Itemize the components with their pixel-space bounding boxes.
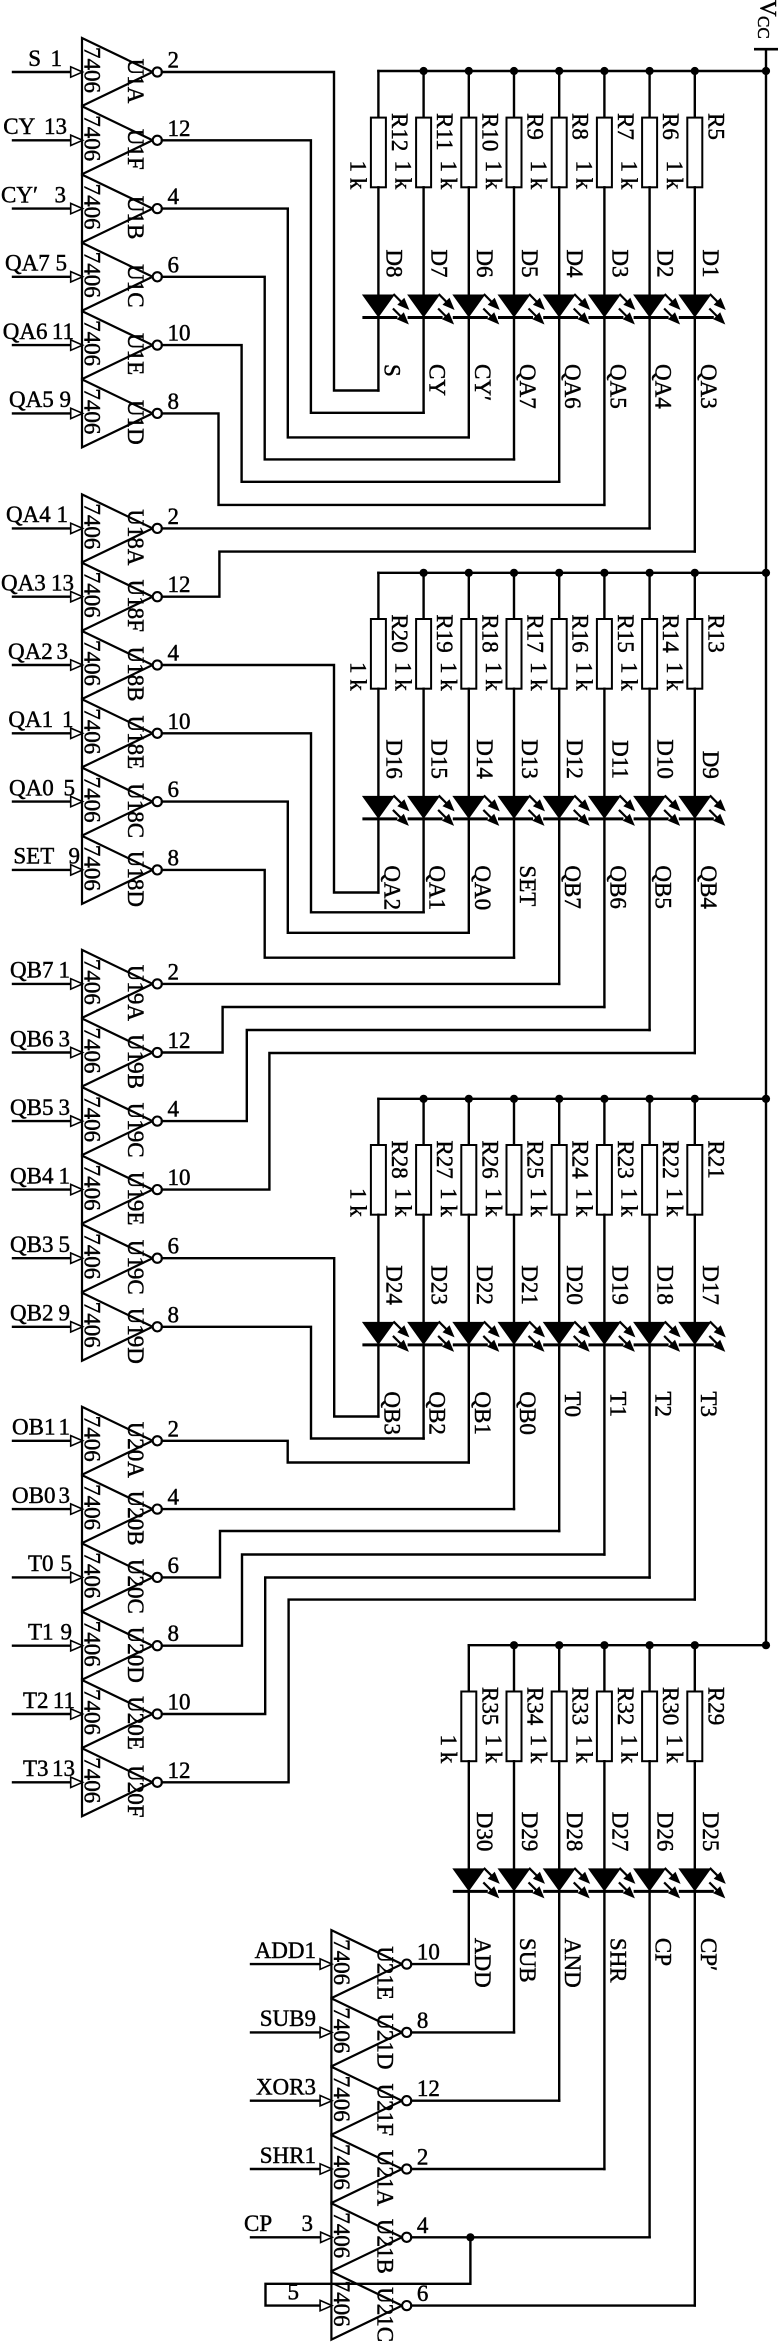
svg-text:U20D: U20D [123, 1627, 148, 1683]
LED D23 [407, 1265, 455, 1352]
LED D26 [633, 1812, 681, 1899]
svg-text:1: 1 [59, 1163, 71, 1188]
input QB2 pin 9 to U19D [10, 1301, 83, 1332]
inverter U19E (7406) [80, 1156, 162, 1226]
svg-text:11: 11 [52, 319, 74, 344]
LED D24 [362, 1265, 410, 1352]
input CP pin 3 to U21B [244, 2211, 332, 2242]
resistor R30 1 k [617, 1645, 684, 1868]
inverter U20E (7406) [80, 1680, 162, 1750]
resistor R10 1 k [436, 71, 503, 295]
inverter U20F (7406) [80, 1748, 162, 1817]
junction dots on bank 3 bus [420, 1095, 771, 1103]
svg-text:QA1: QA1 [425, 865, 450, 910]
svg-text:D24: D24 [381, 1265, 406, 1305]
svg-text:OB0: OB0 [12, 1483, 55, 1508]
svg-text:2: 2 [168, 959, 180, 984]
wire U1F output to LED column (net CY) [162, 140, 424, 413]
inverter U19D (7406) [80, 1293, 162, 1364]
svg-text:8: 8 [168, 1621, 180, 1646]
wire U19E output to LED column (net QB4) [162, 1053, 695, 1190]
svg-text:1: 1 [51, 46, 63, 71]
node net label S [379, 364, 404, 377]
svg-text:QB7: QB7 [10, 958, 53, 983]
svg-text:QB4: QB4 [696, 865, 721, 909]
LED D19 [588, 1265, 636, 1352]
wire net CP column [648, 1891, 650, 2237]
resistor R17 1 k [481, 573, 548, 796]
svg-text:4: 4 [168, 184, 180, 209]
svg-text:D14: D14 [472, 739, 497, 779]
svg-text:9: 9 [59, 1301, 71, 1326]
pin 12 of U20F [168, 1758, 191, 1783]
wire U21F output to LED column (net AND) [411, 2099, 559, 2101]
inverter U21F (7406) [329, 2067, 411, 2136]
node net label QB7 [560, 865, 585, 908]
input T0 pin 5 to U20C [13, 1551, 83, 1582]
svg-text:U19C: U19C [123, 1103, 148, 1158]
svg-text:QA6: QA6 [560, 364, 585, 409]
svg-text:3: 3 [59, 1483, 71, 1508]
svg-text:U21A: U21A [372, 2150, 397, 2207]
svg-text:D3: D3 [607, 249, 632, 277]
svg-text:D10: D10 [653, 739, 678, 779]
svg-text:3: 3 [55, 182, 67, 207]
svg-text:QB5: QB5 [651, 865, 676, 908]
wire U18C output to LED column (net QA0) [162, 802, 469, 933]
LED D2 [633, 249, 681, 324]
svg-text:1 k: 1 k [571, 161, 596, 190]
LED D22 [452, 1265, 500, 1352]
svg-text:U21E: U21E [372, 1946, 397, 2000]
wire net QA5 column [603, 318, 605, 505]
resistor R27 1 k [391, 1099, 458, 1322]
svg-text:U1A: U1A [123, 59, 148, 104]
svg-text:12: 12 [168, 1758, 191, 1783]
wire U1C output to LED column (net QA7) [162, 277, 514, 460]
svg-text:U1B: U1B [123, 196, 148, 239]
svg-text:QA1: QA1 [8, 707, 53, 732]
svg-text:QB0: QB0 [515, 1391, 540, 1434]
svg-text:D12: D12 [562, 739, 587, 779]
wire net SET column [513, 819, 515, 958]
svg-text:T3: T3 [23, 1756, 49, 1781]
svg-text:1 k: 1 k [481, 1734, 506, 1763]
svg-text:R29: R29 [703, 1687, 728, 1725]
svg-text:U19D: U19D [123, 1308, 148, 1364]
node net label QA2 [379, 865, 404, 910]
wire U18B output to LED column (net QA2) [162, 665, 379, 893]
LED D14 [452, 739, 500, 826]
wire net QB2 column [422, 1345, 424, 1439]
svg-text:8: 8 [417, 2008, 429, 2033]
pin 4 of U1B [168, 184, 180, 209]
node net label QB4 [696, 865, 721, 909]
svg-text:D28: D28 [562, 1812, 587, 1852]
svg-text:12: 12 [168, 1028, 191, 1053]
LED D18 [633, 1265, 681, 1352]
svg-text:3: 3 [59, 1026, 71, 1051]
LED D4 [543, 249, 591, 324]
svg-text:D1: D1 [698, 249, 723, 277]
svg-text:D27: D27 [607, 1812, 632, 1852]
LED D3 [588, 249, 636, 324]
wire U21A output to LED column (net SHR) [411, 2168, 604, 2170]
node net label QA4 [651, 364, 676, 409]
junction dots on bank 4 bus [510, 1641, 770, 1649]
svg-text:7406: 7406 [80, 1757, 105, 1803]
pin 4 of U20B [168, 1485, 180, 1510]
LED D17 [678, 1265, 726, 1352]
svg-text:7406: 7406 [329, 2281, 354, 2327]
inverter U1C (7406) [80, 243, 162, 311]
svg-text:1: 1 [59, 1415, 71, 1440]
inverter U20A (7406) [80, 1407, 162, 1478]
svg-text:7406: 7406 [80, 1233, 105, 1279]
pin 6 of U20C [168, 1553, 180, 1578]
svg-text:7406: 7406 [80, 1165, 105, 1211]
svg-text:D2: D2 [653, 249, 678, 277]
LED D21 [498, 1265, 546, 1352]
wire net T1 column [603, 1345, 605, 1555]
svg-text:7406: 7406 [80, 845, 105, 891]
svg-text:R21: R21 [703, 1140, 728, 1178]
svg-text:AND: AND [560, 1938, 585, 1988]
node net label SET [515, 865, 540, 906]
svg-text:R7: R7 [613, 113, 638, 140]
svg-text:R34: R34 [523, 1687, 548, 1726]
inverter U19A (7406) [80, 950, 162, 1021]
wire U20E output to LED column (net T2) [162, 1578, 650, 1715]
svg-text:R23: R23 [613, 1140, 638, 1178]
wire U19B output to LED column (net QB6) [162, 1007, 605, 1053]
svg-text:CP′: CP′ [696, 1938, 721, 1971]
inverter U21D (7406) [329, 1998, 411, 2069]
svg-text:10: 10 [168, 1690, 191, 1715]
svg-text:1 k: 1 k [345, 161, 370, 190]
svg-text:R6: R6 [658, 113, 683, 140]
svg-text:R9: R9 [523, 113, 548, 140]
resistor R29 1 k [662, 1645, 729, 1868]
svg-text:QA4: QA4 [651, 364, 676, 409]
wire net QA3 column [694, 318, 696, 552]
inverter U18A (7406) [80, 494, 162, 565]
wire U20C output to LED column (net T0) [162, 1531, 559, 1577]
svg-text:QA6: QA6 [3, 319, 48, 344]
svg-text:7406: 7406 [80, 1621, 105, 1667]
svg-text:3: 3 [59, 1095, 71, 1120]
svg-text:D23: D23 [427, 1265, 452, 1305]
svg-text:CC: CC [754, 16, 773, 39]
svg-text:8: 8 [168, 389, 180, 414]
wire net QA2 column [377, 819, 379, 893]
node net label QA6 [560, 364, 585, 409]
svg-text:13: 13 [44, 114, 67, 139]
input QB4 pin 1 to U19E [10, 1163, 83, 1194]
svg-text:1 k: 1 k [345, 1188, 370, 1217]
svg-text:R18: R18 [477, 614, 502, 652]
svg-text:T0: T0 [28, 1551, 54, 1576]
svg-text:ADD1: ADD1 [255, 1938, 316, 1963]
svg-text:CP: CP [244, 2211, 272, 2236]
svg-text:7406: 7406 [80, 47, 105, 93]
node net label QB5 [651, 865, 676, 908]
svg-text:U21F: U21F [372, 2083, 397, 2135]
svg-text:7406: 7406 [329, 2076, 354, 2122]
LED D8 [362, 249, 410, 324]
svg-text:U19C: U19C [123, 1240, 148, 1295]
svg-text:7406: 7406 [80, 1028, 105, 1074]
svg-text:QA5: QA5 [605, 364, 630, 409]
wire U18D output to LED column (net SET) [162, 870, 514, 958]
wire net S column [377, 318, 379, 391]
svg-text:6: 6 [168, 1234, 180, 1259]
svg-text:R16: R16 [568, 614, 593, 652]
svg-text:U18C: U18C [123, 783, 148, 838]
svg-text:1 k: 1 k [617, 662, 642, 691]
svg-text:CY′: CY′ [1, 182, 38, 207]
wire net QA7 column [513, 318, 515, 460]
svg-text:D18: D18 [653, 1265, 678, 1305]
pin 8 of U1D [168, 389, 180, 414]
svg-text:9: 9 [60, 387, 72, 412]
wire net CP′ column [694, 1891, 696, 2305]
input QA2 pin 3 to U18B [8, 639, 83, 670]
wire net QA4 column [648, 318, 650, 529]
svg-text:7406: 7406 [329, 2007, 354, 2053]
resistor R32 1 k [571, 1645, 638, 1868]
inverter U21E (7406) [329, 1930, 411, 2000]
node net label QA3 [696, 364, 721, 409]
input T2 pin 11 to U20E [13, 1688, 83, 1719]
svg-text:7406: 7406 [80, 572, 105, 618]
resistor R8 1 k [526, 71, 593, 295]
inverter U20C (7406) [80, 1543, 162, 1613]
wire U1B output to LED column (net CY') [162, 209, 469, 438]
wire Vcc distribution bus (bank 4) [469, 1644, 766, 1646]
svg-text:7406: 7406 [80, 1484, 105, 1530]
pin 10 of U19E [168, 1165, 191, 1190]
wire net CY′ column [468, 318, 470, 438]
inverter U18F (7406) [80, 563, 162, 632]
svg-text:1 k: 1 k [436, 1188, 461, 1217]
svg-text:1 k: 1 k [571, 662, 596, 691]
svg-text:3: 3 [302, 2211, 314, 2236]
input T3 pin 13 to U20F [13, 1756, 83, 1787]
node net label QA0 [470, 865, 495, 910]
svg-text:R10: R10 [477, 113, 502, 151]
svg-text:1 k: 1 k [436, 662, 461, 691]
inverter U21C (7406) [329, 2272, 411, 2342]
svg-text:U18F: U18F [123, 579, 148, 631]
pin 6 of U19C [168, 1234, 180, 1259]
resistor R22 1 k [617, 1099, 684, 1322]
svg-text:D19: D19 [607, 1265, 632, 1305]
wire net SHR column [603, 1891, 605, 2169]
svg-text:T2: T2 [23, 1688, 49, 1713]
svg-text:U20F: U20F [123, 1765, 148, 1817]
pin 8 of U21D [417, 2008, 429, 2033]
node net label QB1 [470, 1391, 495, 1434]
svg-text:U20A: U20A [123, 1422, 148, 1479]
svg-text:QB2: QB2 [10, 1301, 53, 1326]
svg-text:XOR3: XOR3 [256, 2075, 316, 2100]
svg-text:7406: 7406 [80, 115, 105, 161]
pin 2 of U20A [168, 1416, 180, 1441]
wire net QB4 column [694, 819, 696, 1053]
inverter U1E (7406) [80, 311, 162, 379]
svg-text:OB1: OB1 [12, 1415, 55, 1440]
wire U18A output to LED column (net QA4) [162, 527, 650, 529]
svg-text:R27: R27 [432, 1140, 457, 1178]
pin 5 of U21C [288, 2279, 300, 2304]
svg-text:D25: D25 [698, 1812, 723, 1852]
svg-text:D26: D26 [653, 1812, 678, 1852]
svg-text:U18E: U18E [123, 715, 148, 769]
LED D15 [407, 739, 455, 826]
wire net QA1 column [422, 819, 424, 912]
wire U21B output to LED column (net CP) [411, 2236, 649, 2238]
svg-text:1 k: 1 k [526, 161, 551, 190]
svg-text:12: 12 [168, 572, 191, 597]
svg-text:4: 4 [417, 2213, 429, 2238]
svg-text:QA4: QA4 [6, 502, 51, 527]
svg-text:1 k: 1 k [662, 1188, 687, 1217]
input QA6 pin 11 to U1E [3, 319, 83, 350]
svg-text:R30: R30 [658, 1687, 683, 1725]
svg-text:D21: D21 [517, 1265, 542, 1305]
svg-text:R35: R35 [477, 1687, 502, 1725]
input QA3 pin 13 to U18F [1, 571, 83, 602]
svg-text:7406: 7406 [80, 1302, 105, 1348]
svg-text:U18B: U18B [123, 647, 148, 702]
svg-text:CP: CP [651, 1938, 676, 1966]
resistor R12 1 k [345, 71, 412, 295]
svg-text:R13: R13 [703, 614, 728, 652]
resistor R23 1 k [571, 1099, 638, 1322]
svg-text:D22: D22 [472, 1265, 497, 1305]
input SUB9 to U21D [251, 2006, 332, 2037]
inverter U19C (7406) [80, 1224, 162, 1294]
node net label QA1 [425, 865, 450, 910]
LED D5 [498, 249, 546, 324]
pin 6 of U21C [417, 2281, 429, 2306]
LED D29 [498, 1812, 546, 1899]
resistor R11 1 k [391, 71, 458, 295]
resistor R13 1 k [662, 573, 729, 796]
svg-text:1 k: 1 k [345, 662, 370, 691]
wire net QB6 column [603, 819, 605, 1007]
svg-text:R32: R32 [613, 1687, 638, 1725]
wire net T3 column [694, 1345, 696, 1600]
svg-text:11: 11 [53, 1688, 75, 1713]
input QB3 pin 5 to U19C [10, 1232, 83, 1263]
svg-text:1 k: 1 k [526, 662, 551, 691]
svg-text:4: 4 [168, 641, 180, 666]
pin 8 of U20D [168, 1621, 180, 1646]
svg-text:1: 1 [62, 707, 74, 732]
wire U19C output to LED column (net QB3) [162, 1258, 379, 1416]
node net label T2 [651, 1391, 676, 1417]
inverter U1A (7406) [80, 38, 162, 106]
input QA7 pin 5 to U1C [5, 251, 83, 282]
input OB0 pin 3 to U20B [12, 1483, 83, 1514]
svg-text:D8: D8 [381, 249, 406, 277]
svg-text:7406: 7406 [80, 320, 105, 366]
wire net QB7 column [558, 819, 560, 984]
LED D13 [498, 739, 546, 826]
svg-text:ADD: ADD [470, 1938, 495, 1988]
node net label CY [425, 364, 450, 396]
svg-text:10: 10 [168, 1165, 191, 1190]
svg-text:12: 12 [168, 116, 191, 141]
svg-text:SUB: SUB [515, 1938, 540, 1983]
svg-text:QB7: QB7 [560, 865, 585, 908]
resistor R34 1 k [481, 1645, 548, 1868]
inverter U18C (7406) [80, 768, 162, 838]
resistor R25 1 k [481, 1099, 548, 1322]
input QB7 pin 1 to U19A [10, 958, 83, 989]
input QB5 pin 3 to U19C [10, 1095, 83, 1126]
svg-text:QA3: QA3 [1, 571, 46, 596]
svg-text:3: 3 [57, 639, 69, 664]
svg-text:QB4: QB4 [10, 1163, 54, 1188]
svg-text:1 k: 1 k [481, 662, 506, 691]
svg-text:R28: R28 [387, 1140, 412, 1178]
svg-text:12: 12 [417, 2076, 440, 2101]
svg-text:QB2: QB2 [425, 1391, 450, 1434]
pin 2 of U19A [168, 959, 180, 984]
pin 6 of U1C [168, 252, 180, 277]
svg-text:D15: D15 [427, 739, 452, 779]
LED D28 [543, 1812, 591, 1899]
svg-text:5: 5 [56, 251, 68, 276]
wire U19D output to LED column (net QB2) [162, 1327, 424, 1439]
svg-text:QA0: QA0 [9, 775, 54, 800]
node net label T0 [560, 1391, 585, 1417]
resistor R14 1 k [617, 573, 684, 796]
wire Vcc distribution bus (bank 2) [378, 572, 766, 574]
wire U20B output to LED column (net QB0) [162, 1508, 514, 1510]
wire net QB5 column [648, 819, 650, 1030]
svg-text:U1D: U1D [123, 400, 148, 445]
wire net QB3 column [377, 1345, 379, 1417]
svg-text:R12: R12 [387, 113, 412, 151]
input CY′ pin 3 to U1B [1, 182, 83, 213]
pin 2 of U1A [168, 48, 180, 73]
svg-text:V: V [756, 0, 778, 17]
svg-text:2: 2 [168, 48, 180, 73]
wire U18F output to LED column (net QA3) [162, 552, 695, 597]
svg-text:8: 8 [168, 1302, 180, 1327]
input QA1 pin 1 to U18E [8, 707, 82, 738]
svg-text:10: 10 [417, 1940, 440, 1965]
LED D20 [543, 1265, 591, 1352]
node net label QB6 [605, 865, 630, 908]
svg-text:S: S [379, 364, 404, 377]
svg-text:R14: R14 [658, 614, 683, 653]
inverter U20D (7406) [80, 1612, 162, 1683]
resistor R28 1 k [345, 1099, 412, 1322]
svg-text:1 k: 1 k [617, 1734, 642, 1763]
inverter U20B (7406) [80, 1475, 162, 1545]
pin 12 of U18F [168, 572, 191, 597]
node net label QB3 [379, 1391, 404, 1434]
svg-text:U1C: U1C [123, 264, 148, 307]
pin 4 of U18B [168, 641, 180, 666]
svg-text:QB3: QB3 [379, 1391, 404, 1434]
svg-text:7406: 7406 [80, 640, 105, 686]
